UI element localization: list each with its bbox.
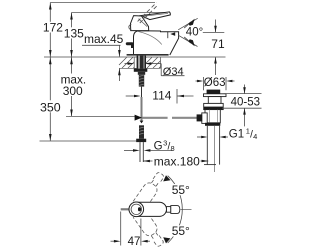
wire max300 bottom reference line (66, 115, 136, 117)
plan view cap circle (129, 202, 144, 217)
waste body (205, 110, 220, 123)
dimension max.45 (82, 45, 121, 81)
plan 55° swivel arc (168, 176, 183, 243)
dimension 172/350 vertical line (49, 3, 51, 141)
dimension 40-53 (222, 85, 262, 127)
waste plug cap dark (207, 90, 221, 94)
dimension 71 (215, 20, 217, 76)
40° arc arrow lower (184, 37, 190, 43)
plan view rod (121, 208, 130, 210)
svg-text:47: 47 (128, 236, 141, 248)
wire aerator level reference (203, 31, 225, 33)
deck hatched section right (145, 57, 161, 68)
40° arc arrow upper (184, 22, 190, 28)
waste compression nut dark (205, 123, 220, 126)
wire 350 bottom reference line (40, 140, 142, 142)
horizontal linkage rod to waste (143, 117, 168, 119)
svg-text:350: 350 (40, 101, 61, 115)
svg-text:300: 300 (63, 84, 83, 98)
pop-up knob on body (126, 42, 134, 45)
dimension hole Ø34 leader (125, 64, 185, 76)
faucet threaded stud upper (138, 72, 145, 75)
dimension 135/max300 vertical line (71, 13, 73, 117)
waste tailpipe (206, 126, 208, 165)
waste pipe end tick (204, 164, 216, 166)
junction arrowhead on rod (135, 115, 142, 121)
pop-up rod cone tip (140, 121, 144, 124)
plan view neck (167, 207, 171, 213)
svg-text:40-53: 40-53 (231, 97, 260, 109)
svg-text:Ø63: Ø63 (204, 77, 226, 89)
label 55° bottom (171, 225, 191, 236)
waste flange brim (204, 94, 227, 97)
dimension 47 (111, 212, 151, 246)
dimension max.180 (143, 160, 208, 162)
hex nut on stud (136, 139, 146, 142)
svg-text:max.180: max.180 (154, 154, 200, 168)
waste centerline (214, 126, 216, 172)
waste side port (202, 113, 207, 124)
handle raised dashed (138, 3, 159, 23)
waste rod coupling nut dark (197, 114, 203, 121)
faucet base plate (127, 54, 169, 56)
wire deck reference line (44, 56, 226, 58)
svg-text:max.45: max.45 (84, 32, 124, 46)
faucet threaded stud lower (139, 125, 144, 138)
svg-text:55°: 55° (172, 183, 190, 197)
faucet body side view (134, 31, 179, 55)
label 55° top (171, 184, 191, 195)
handle lever top facet (144, 13, 169, 16)
dimension G3/8 (124, 149, 173, 151)
plan view dashed lever rotated down 55 (133, 209, 167, 249)
dimension Ø63 (196, 77, 235, 90)
handle boss crease (139, 19, 148, 27)
dimension 114 (126, 89, 194, 104)
wire extension line top 172 (50, 2, 155, 4)
plan view lever body (129, 202, 166, 216)
waste neck (208, 97, 221, 104)
svg-text:40°: 40° (186, 26, 203, 38)
handle boss (131, 16, 149, 31)
aerator flow arrow (170, 32, 175, 36)
faucet shank through deck (137, 56, 146, 69)
aerator separation line (167, 32, 169, 38)
text background gaps (40, 22, 87, 113)
svg-text:172: 172 (43, 21, 63, 35)
dimension G1 1/4 (197, 136, 228, 138)
faucet washer under deck (134, 69, 148, 72)
plan view cap inner circle (131, 204, 141, 214)
40° cone edge upper (178, 18, 198, 30)
svg-text:55°: 55° (172, 224, 190, 238)
faucet inner sculpt line (138, 31, 162, 44)
plan view center dot (138, 207, 141, 211)
svg-text:71: 71 (211, 37, 225, 51)
handle lever (141, 12, 171, 20)
wire extension line 135 (72, 12, 171, 14)
plan view centerline cross (181, 208, 192, 210)
deck hatched section left (119, 57, 161, 68)
plan view dashed lever rotated up 55 (133, 170, 167, 210)
svg-text:Ø34: Ø34 (163, 66, 184, 78)
svg-text:114: 114 (152, 88, 171, 102)
wire thin rod below stud (141, 87, 143, 97)
handle boss foot curl (129, 24, 131, 29)
pop-up rod vertical (141, 97, 143, 121)
svg-text:135: 135 (64, 27, 84, 41)
waste locknut (204, 103, 224, 109)
40° cone edge lower (178, 35, 197, 46)
G3/8 nipple lines (139, 142, 141, 162)
plan view tip knob (171, 206, 180, 214)
